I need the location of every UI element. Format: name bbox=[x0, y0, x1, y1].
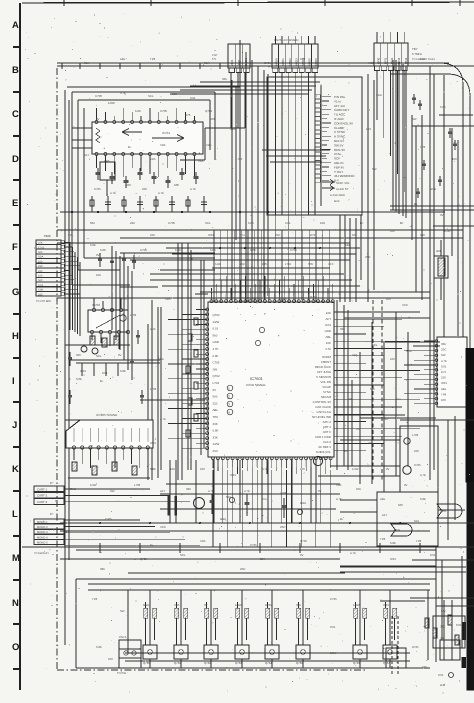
transistor Q782 bbox=[404, 438, 410, 444]
page frame top border bbox=[22, 2, 474, 3]
svg-text:ABL: ABL bbox=[120, 57, 126, 61]
svg-text:TO MAIN BY: TO MAIN BY bbox=[34, 552, 49, 555]
svg-text:B+: B+ bbox=[128, 145, 132, 149]
svg-text:SDA: SDA bbox=[376, 93, 382, 97]
svg-text:560: 560 bbox=[172, 92, 177, 96]
IC702 bottom pins bbox=[90, 330, 129, 333]
svg-text:MONO 5: MONO 5 bbox=[37, 542, 48, 545]
svg-text:A-CLD RED: A-CLD RED bbox=[330, 193, 345, 197]
svg-text:HORIZ: HORIZ bbox=[322, 355, 331, 359]
connector CN701 top-left block bbox=[228, 44, 250, 68]
svg-text:9V: 9V bbox=[440, 213, 444, 217]
svg-text:AUD5: AUD5 bbox=[308, 58, 312, 66]
svg-text:0.01: 0.01 bbox=[38, 284, 44, 287]
svg-text:B+: B+ bbox=[400, 221, 404, 225]
CN701 wire bends left bbox=[205, 127, 245, 129]
svg-text:ABL: ABL bbox=[441, 387, 447, 391]
svg-text:560: 560 bbox=[76, 353, 81, 357]
IC701 audio IF body bbox=[92, 122, 203, 154]
IC7601 bottom pin leads and labels bbox=[212, 459, 214, 469]
svg-text:AFT: AFT bbox=[382, 513, 388, 517]
svg-text:H SYNC: H SYNC bbox=[334, 135, 346, 139]
svg-text:220: 220 bbox=[368, 441, 373, 445]
IC701 internal arrows bbox=[122, 129, 142, 136]
svg-text:Q761: Q761 bbox=[174, 661, 181, 665]
svg-text:2SC: 2SC bbox=[365, 255, 370, 259]
svg-text:C705: C705 bbox=[330, 597, 337, 601]
M row labels bbox=[100, 517, 396, 571]
svg-text:560: 560 bbox=[38, 279, 43, 282]
svg-text:Q702: Q702 bbox=[213, 374, 220, 378]
svg-text:4.7K: 4.7K bbox=[110, 191, 116, 195]
inductor bars L761 bbox=[168, 496, 170, 515]
svg-text:10K: 10K bbox=[326, 311, 331, 315]
svg-text:D75: D75 bbox=[185, 113, 191, 117]
capacitors right mid area bbox=[413, 94, 415, 104]
svg-text:Y1 in: Y1 in bbox=[334, 99, 341, 103]
svg-text:AFT: AFT bbox=[326, 317, 332, 321]
svg-text:10K: 10K bbox=[170, 467, 175, 471]
IC7601 right pin labels bbox=[312, 355, 332, 459]
svg-text:CAR VALVE: CAR VALVE bbox=[315, 405, 331, 409]
svg-text:CARR DET: CARR DET bbox=[334, 108, 350, 112]
svg-text:4.7K: 4.7K bbox=[336, 497, 342, 501]
wire loop around IC701 bbox=[71, 92, 73, 285]
dashed verticals right of IC bbox=[372, 300, 374, 480]
svg-text:6.8K: 6.8K bbox=[390, 541, 396, 545]
IC7601 top pins bbox=[210, 300, 334, 303]
svg-text:Q766: Q766 bbox=[353, 661, 360, 665]
svg-text:M: M bbox=[12, 553, 20, 564]
IC7803 left pins bbox=[435, 340, 438, 405]
svg-text:T/V: T/V bbox=[212, 58, 216, 61]
svg-text:SW: SW bbox=[120, 609, 125, 613]
components below IC7805 bbox=[72, 462, 77, 471]
central vertical bus from top connectors bbox=[239, 40, 241, 302]
svg-text:9V: 9V bbox=[118, 353, 122, 357]
IC7805 body with cut corner bbox=[66, 420, 153, 448]
svg-text:SYNC: SYNC bbox=[323, 390, 331, 394]
svg-text:B+: B+ bbox=[100, 379, 104, 383]
svg-text:7B.: 7B. bbox=[440, 625, 445, 629]
svg-text:VR5: VR5 bbox=[250, 248, 256, 252]
svg-text:L: L bbox=[12, 509, 18, 520]
capacitor C762 bbox=[246, 494, 248, 516]
service box K row bbox=[400, 426, 438, 492]
svg-text:Q702: Q702 bbox=[300, 539, 307, 543]
bottom right dashed verticals bbox=[391, 616, 393, 676]
svg-text:AF REF 9: AF REF 9 bbox=[318, 445, 331, 449]
K row vertical drops bbox=[169, 460, 171, 523]
wire forest above IC7601 bbox=[166, 247, 360, 249]
svg-text:6.8K: 6.8K bbox=[420, 497, 426, 501]
capacitors below IC701 row1 bbox=[97, 168, 99, 180]
top extra stubs bbox=[61, 63, 63, 69]
IC701 pin leads bbox=[96, 108, 98, 121]
resistor network right bbox=[438, 258, 445, 276]
vertical bundle from stack down bbox=[69, 242, 71, 330]
svg-text:6.8K: 6.8K bbox=[248, 221, 254, 225]
labels below IC701 bbox=[94, 183, 196, 195]
svg-text:S SENSOR: S SENSOR bbox=[316, 375, 331, 379]
dash-dot board outline bbox=[56, 68, 58, 670]
svg-text:VR5: VR5 bbox=[150, 157, 156, 161]
svg-text:SCL: SCL bbox=[180, 553, 186, 557]
svg-text:6.8K: 6.8K bbox=[215, 263, 221, 266]
svg-text:4.7K: 4.7K bbox=[350, 551, 356, 555]
svg-text:1/2W: 1/2W bbox=[444, 229, 451, 233]
svg-text:33K: 33K bbox=[340, 327, 345, 331]
IC7803 pin lead wires bbox=[424, 340, 435, 342]
svg-text:D75: D75 bbox=[262, 263, 267, 266]
svg-text:33K: 33K bbox=[222, 77, 227, 81]
svg-text:560: 560 bbox=[420, 233, 425, 237]
svg-text:AUD2: AUD2 bbox=[288, 58, 292, 66]
svg-text:1/2W: 1/2W bbox=[213, 442, 220, 446]
svg-text:MONO 3: MONO 3 bbox=[37, 531, 48, 534]
svg-text:2SC: 2SC bbox=[240, 567, 245, 571]
svg-text:33K: 33K bbox=[213, 422, 218, 426]
connector CN702 top-middle block bbox=[272, 44, 318, 68]
regulator IC key symbol 1 bbox=[437, 504, 462, 518]
svg-text:GND: GND bbox=[143, 603, 149, 607]
svg-text:1/2W: 1/2W bbox=[353, 603, 360, 607]
labels below IC702 bbox=[76, 353, 126, 383]
N row inner horizontals bbox=[88, 583, 430, 585]
svg-text:AUD0: AUD0 bbox=[275, 58, 279, 66]
svg-text:GND: GND bbox=[220, 517, 226, 521]
svg-text:SP LEVEL IND: SP LEVEL IND bbox=[312, 415, 331, 419]
svg-text:TP8: TP8 bbox=[92, 597, 98, 601]
svg-text:Gnd: Gnd bbox=[334, 199, 340, 203]
svg-text:IC01: IC01 bbox=[230, 473, 236, 477]
IC702 internal diagonal bbox=[96, 315, 120, 328]
svg-text:MONO 1: MONO 1 bbox=[37, 521, 48, 524]
svg-text:VR5: VR5 bbox=[200, 539, 206, 543]
svg-text:CONTROL 9V: CONTROL 9V bbox=[334, 121, 353, 125]
IC7805 bottom pins bbox=[72, 446, 149, 449]
svg-text:6.8K: 6.8K bbox=[213, 429, 219, 433]
svg-text:100: 100 bbox=[344, 449, 349, 453]
svg-text:10K: 10K bbox=[326, 341, 331, 345]
components left of IC7601 bbox=[194, 318, 198, 325]
G row bus pair bbox=[76, 359, 160, 361]
wires from CN701 down bbox=[230, 73, 232, 129]
svg-text:100: 100 bbox=[352, 233, 357, 237]
transistor group Q761 at x=181 bbox=[180, 590, 182, 645]
connector MONO rows bbox=[34, 519, 64, 524]
svg-text:S/CAP: S/CAP bbox=[322, 385, 331, 389]
svg-text:SCL: SCL bbox=[414, 519, 420, 523]
svg-text:C705: C705 bbox=[95, 94, 102, 98]
svg-text:AUD1: AUD1 bbox=[281, 58, 285, 66]
transistor group Q767 at x=390 bbox=[389, 590, 391, 645]
svg-text:CLK 8: CLK 8 bbox=[323, 440, 331, 444]
svg-text:33K: 33K bbox=[186, 487, 191, 491]
svg-text:ABL IN: ABL IN bbox=[334, 161, 343, 165]
svg-text:SECAM: SECAM bbox=[321, 395, 332, 399]
svg-text:REG 9V: REG 9V bbox=[334, 148, 345, 152]
svg-text:6.8K: 6.8K bbox=[38, 289, 44, 292]
svg-text:SDA: SDA bbox=[84, 61, 90, 65]
svg-text:R701: R701 bbox=[310, 233, 317, 237]
svg-text:TP8: TP8 bbox=[380, 537, 386, 541]
svg-text:B+: B+ bbox=[340, 517, 344, 521]
svg-text:C705: C705 bbox=[105, 517, 112, 521]
svg-text:TP8: TP8 bbox=[213, 415, 219, 419]
svg-text:TBY: TBY bbox=[412, 47, 418, 51]
rounded corner wire top right bbox=[449, 74, 470, 348]
svg-text:Q702: Q702 bbox=[140, 557, 147, 561]
transistor Q760 right of bottom pins bbox=[313, 456, 322, 465]
svg-text:SCL: SCL bbox=[372, 343, 378, 347]
IC7601 right top labels bbox=[325, 311, 332, 351]
svg-text:220: 220 bbox=[142, 187, 147, 191]
extra tiny labels scatter bbox=[68, 57, 457, 677]
svg-text:SW: SW bbox=[412, 117, 417, 121]
wires from connector stack to bus bbox=[64, 241, 70, 243]
svg-text:100: 100 bbox=[300, 57, 305, 61]
svg-text:SCP: SCP bbox=[334, 157, 340, 161]
svg-text:0.01: 0.01 bbox=[438, 673, 444, 677]
svg-text:D75: D75 bbox=[441, 370, 447, 374]
transistor Q781 bbox=[403, 466, 411, 474]
small box top-left area bbox=[100, 162, 115, 180]
svg-text:220: 220 bbox=[414, 449, 419, 453]
IC702 top pins bbox=[92, 308, 122, 311]
svg-text:K: K bbox=[12, 464, 19, 475]
svg-text:AFT out: AFT out bbox=[334, 104, 345, 108]
svg-text:2SC: 2SC bbox=[441, 348, 446, 352]
svg-text:7805: 7805 bbox=[440, 509, 447, 513]
svg-text:C705: C705 bbox=[280, 297, 287, 301]
svg-text:Q764: Q764 bbox=[265, 661, 272, 665]
svg-text:BLK IN: BLK IN bbox=[334, 139, 344, 143]
svg-text:560: 560 bbox=[370, 387, 375, 391]
svg-text:10K: 10K bbox=[356, 487, 361, 491]
svg-text:5.7MHz: 5.7MHz bbox=[412, 52, 423, 56]
M row long bus wires bbox=[166, 483, 340, 485]
svg-text:TU AGC: TU AGC bbox=[334, 113, 346, 117]
svg-text:100: 100 bbox=[452, 157, 457, 161]
svg-text:0.01: 0.01 bbox=[230, 127, 236, 131]
svg-text:L703: L703 bbox=[412, 433, 419, 437]
svg-text:MONO 2: MONO 2 bbox=[37, 526, 48, 529]
extra horizontals upper mid bbox=[84, 257, 215, 259]
svg-text:GND: GND bbox=[325, 329, 331, 333]
svg-text:Q702: Q702 bbox=[310, 295, 317, 299]
svg-text:47u: 47u bbox=[396, 397, 401, 401]
svg-text:Y OUT: Y OUT bbox=[334, 170, 343, 174]
svg-text:220: 220 bbox=[130, 221, 135, 225]
svg-text:C705: C705 bbox=[213, 361, 220, 365]
svg-text:1/2W: 1/2W bbox=[90, 483, 97, 487]
svg-text:C705: C705 bbox=[160, 109, 167, 113]
svg-text:ART 2: ART 2 bbox=[323, 425, 331, 429]
IC7601 jungle body bbox=[208, 302, 334, 457]
capacitor C763 bbox=[283, 498, 285, 518]
pin label rows with leaders bbox=[315, 95, 356, 183]
svg-text:43-HARMONIC: 43-HARMONIC bbox=[334, 174, 356, 178]
labels on E bus bbox=[90, 221, 404, 252]
svg-text:C705: C705 bbox=[264, 61, 271, 65]
svg-text:9V: 9V bbox=[204, 603, 208, 607]
svg-text:0.01: 0.01 bbox=[456, 623, 462, 627]
svg-text:1/2W: 1/2W bbox=[352, 467, 359, 471]
IC701 top pins bbox=[95, 121, 196, 124]
IC7805 pin leads down bbox=[73, 449, 75, 460]
transistor group Q766 at x=360 bbox=[359, 590, 361, 645]
svg-text:10K: 10K bbox=[174, 183, 179, 187]
svg-text:L703: L703 bbox=[236, 157, 243, 161]
svg-text:G: G bbox=[12, 287, 19, 298]
svg-text:IC7601: IC7601 bbox=[250, 376, 264, 381]
IC7601 left pin labels bbox=[213, 313, 220, 453]
svg-text:SUB B VOL: SUB B VOL bbox=[316, 450, 332, 454]
svg-text:33K: 33K bbox=[441, 342, 446, 346]
svg-text:VR5: VR5 bbox=[150, 327, 156, 331]
svg-text:VCC: VCC bbox=[402, 303, 408, 307]
svg-text:560: 560 bbox=[398, 503, 403, 507]
caps row F right bbox=[99, 253, 101, 267]
bottom inner bus bbox=[88, 589, 430, 591]
svg-text:47u: 47u bbox=[240, 233, 245, 237]
svg-text:0.01: 0.01 bbox=[213, 327, 219, 331]
svg-text:33K: 33K bbox=[100, 567, 105, 571]
right lower horizontals bbox=[400, 419, 474, 421]
wire bends below connectors bbox=[200, 81, 320, 83]
svg-text:100: 100 bbox=[200, 467, 205, 471]
transistor group Q764 at x=272 bbox=[271, 590, 273, 645]
svg-text:GND: GND bbox=[382, 417, 388, 421]
svg-text:XTAL: XTAL bbox=[334, 152, 342, 156]
resistors near IC702 bbox=[90, 336, 95, 345]
svg-text:IC01: IC01 bbox=[208, 233, 214, 237]
G-H mid-left extra parts bbox=[69, 352, 71, 366]
svg-text:L703: L703 bbox=[285, 263, 291, 266]
svg-text:TO CRT BRD: TO CRT BRD bbox=[36, 300, 51, 303]
svg-text:C705: C705 bbox=[414, 463, 421, 467]
svg-text:SCL: SCL bbox=[68, 233, 74, 237]
right of IC vertical drops bbox=[359, 352, 361, 484]
svg-text:560: 560 bbox=[210, 117, 215, 121]
svg-text:IC01: IC01 bbox=[325, 323, 331, 327]
rotated pin number text above top pins bbox=[211, 294, 333, 300]
mid-bottom vertical bbox=[127, 590, 129, 653]
svg-text:I: I bbox=[12, 376, 15, 387]
transistor group Q760 at x=150 bbox=[149, 590, 151, 645]
svg-text:CART-2: CART-2 bbox=[37, 494, 48, 498]
svg-text:9V: 9V bbox=[213, 388, 217, 392]
svg-text:6.8K: 6.8K bbox=[440, 105, 446, 109]
svg-text:1/2W: 1/2W bbox=[108, 101, 115, 105]
svg-text:IC01: IC01 bbox=[150, 441, 156, 445]
svg-text:PB/B: PB/B bbox=[44, 234, 51, 238]
svg-text:SCL: SCL bbox=[226, 495, 232, 499]
svg-text:6.8K: 6.8K bbox=[76, 377, 82, 381]
svg-text:J: J bbox=[12, 420, 17, 431]
svg-text:Q767: Q767 bbox=[383, 661, 390, 665]
M bus vertical taps bbox=[99, 543, 101, 553]
svg-text:IC701: IC701 bbox=[162, 131, 170, 135]
svg-text:4.7K: 4.7K bbox=[160, 417, 166, 421]
svg-text:4.7K: 4.7K bbox=[441, 359, 447, 363]
svg-text:TP8: TP8 bbox=[308, 263, 313, 266]
svg-text:IC01: IC01 bbox=[390, 557, 396, 561]
transistor circle bottom right bbox=[449, 673, 454, 678]
extra verticals right margin area bbox=[415, 126, 417, 292]
IC7601 top pin leads bbox=[211, 288, 213, 301]
svg-text:TO P/B: TO P/B bbox=[117, 672, 126, 675]
svg-text:CART-1: CART-1 bbox=[37, 487, 48, 491]
svg-text:SDA: SDA bbox=[38, 256, 44, 259]
svg-text:CN7A: CN7A bbox=[119, 635, 127, 639]
svg-text:9V: 9V bbox=[386, 467, 390, 471]
svg-text:VCC: VCC bbox=[328, 263, 334, 266]
right-mid vertical wires bbox=[367, 74, 369, 302]
svg-text:ABL: ABL bbox=[380, 497, 386, 501]
svg-text:4.7K: 4.7K bbox=[213, 347, 219, 351]
svg-text:AJ3: AJ3 bbox=[440, 683, 446, 687]
transistor Q702 bbox=[92, 348, 98, 354]
svg-text:10K: 10K bbox=[150, 233, 155, 237]
regulator IC key symbol 2 bbox=[391, 524, 412, 536]
regulator box L row bbox=[377, 492, 438, 546]
svg-text:L703: L703 bbox=[130, 313, 137, 317]
svg-text:H: H bbox=[12, 331, 19, 342]
svg-text:100: 100 bbox=[386, 297, 391, 301]
IC7805 rotated pin labels bbox=[73, 428, 76, 442]
svg-text:P/N PAL: P/N PAL bbox=[334, 95, 346, 99]
component row above E bus bbox=[91, 196, 93, 212]
IC702 pin leads bbox=[93, 298, 95, 309]
wires above IC7601 bbox=[150, 273, 344, 275]
parts inside regulator box bbox=[380, 497, 426, 543]
svg-text:CART-3: CART-3 bbox=[37, 500, 48, 504]
IC7803 body right side bbox=[437, 337, 467, 407]
svg-text:CN7: CN7 bbox=[212, 54, 218, 57]
svg-text:6.8K: 6.8K bbox=[213, 354, 219, 358]
svg-text:N: N bbox=[12, 598, 19, 609]
IC7601 right pin lead wires bbox=[334, 311, 420, 313]
svg-text:9V: 9V bbox=[300, 553, 304, 557]
svg-text:IC01: IC01 bbox=[441, 381, 447, 385]
svg-text:Q765: Q765 bbox=[296, 661, 303, 665]
transistor group Q762 at x=211 bbox=[210, 590, 212, 645]
svg-text:1/2W: 1/2W bbox=[330, 651, 337, 655]
svg-text:AFT: AFT bbox=[84, 153, 90, 157]
svg-text:Q702: Q702 bbox=[205, 109, 212, 113]
svg-text:220: 220 bbox=[126, 183, 131, 187]
svg-text:L703: L703 bbox=[250, 297, 257, 301]
svg-text:GND: GND bbox=[430, 187, 436, 191]
svg-text:CONTROL 9V: CONTROL 9V bbox=[313, 400, 331, 404]
bottom right step wires bbox=[340, 566, 466, 568]
svg-text:VR5: VR5 bbox=[198, 159, 204, 163]
svg-text:O: O bbox=[12, 642, 19, 653]
svg-text:ABL: ABL bbox=[345, 243, 351, 247]
transistor Q761 bbox=[194, 498, 205, 509]
svg-text:10K: 10K bbox=[96, 273, 101, 277]
svg-text:CLAMP: CLAMP bbox=[334, 126, 344, 130]
mid horizontal link wires bbox=[120, 252, 215, 254]
svg-text:FRONT: FRONT bbox=[321, 360, 331, 364]
svg-text:CAR FLAG: CAR FLAG bbox=[317, 410, 332, 414]
svg-text:ABL: ABL bbox=[326, 335, 332, 339]
bottom section frame bbox=[75, 579, 77, 668]
left mid vertical bus wires bbox=[147, 324, 149, 480]
connector stack CN751 rows bbox=[36, 240, 61, 244]
